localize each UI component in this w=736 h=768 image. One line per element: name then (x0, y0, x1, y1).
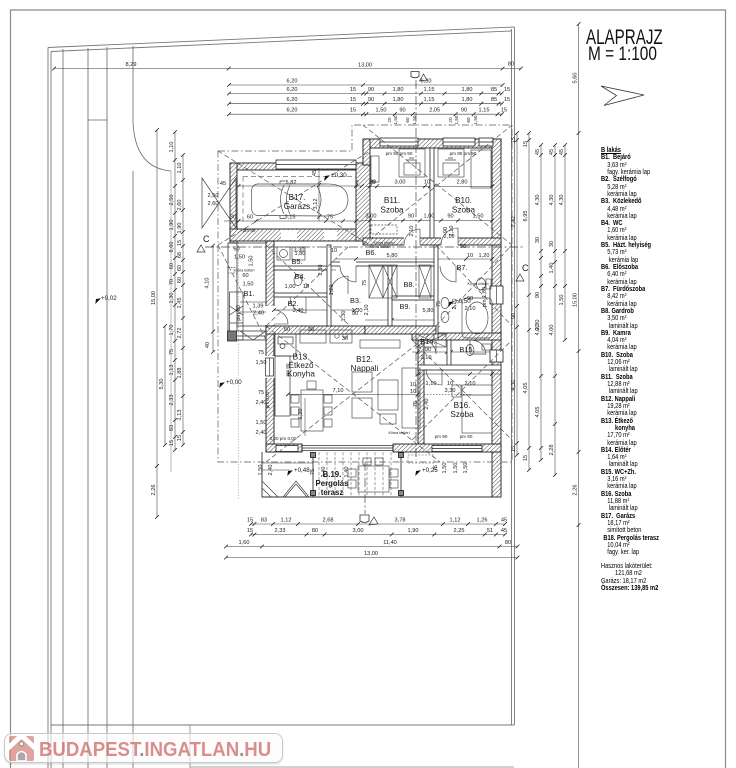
svg-text:pm 90: pm 90 (285, 363, 290, 376)
marker D top (411, 72, 419, 78)
svg-text:1,26: 1,26 (477, 518, 488, 524)
svg-text:2,10: 2,10 (465, 381, 476, 387)
svg-text:3,40: 3,40 (293, 308, 304, 314)
title block: ALAPRAJZ M = 1:100 (586, 27, 663, 49)
door gap corridor-B3 (340, 261, 356, 267)
wall garage right / B11 left (356, 163, 370, 241)
room B10 (452, 196, 476, 215)
door gap B6-B10 (441, 237, 458, 246)
garage dim row 3,15 (224, 220, 362, 222)
svg-text:5,80: 5,80 (423, 308, 434, 314)
svg-text:1,30: 1,30 (169, 293, 175, 304)
svg-text:6,20: 6,20 (287, 87, 298, 93)
corridor dim row 5,80 (336, 258, 492, 260)
totals block (601, 562, 658, 591)
svg-text:B15.: B15. (459, 345, 474, 354)
roof diagonal top block X (363, 125, 512, 245)
partition B7 left (434, 245, 438, 340)
svg-text:15: 15 (169, 440, 175, 446)
svg-text:15: 15 (501, 108, 507, 114)
neighbour plot rectangle bottom (190, 725, 514, 768)
svg-text:pm 90 pm 90: pm 90 pm 90 (386, 151, 413, 156)
svg-text:1,13: 1,13 (169, 365, 175, 376)
svg-text:60: 60 (466, 117, 471, 123)
svg-text:C: C (522, 263, 529, 273)
svg-text:85: 85 (491, 97, 497, 103)
door gap B16 (426, 366, 442, 369)
svg-text:2,30: 2,30 (318, 265, 324, 276)
svg-text:45: 45 (220, 181, 226, 187)
svg-text:75: 75 (310, 469, 316, 475)
right chain R1 6,95 (527, 131, 531, 472)
svg-text:Klíma kültéri: Klíma kültéri (234, 269, 255, 273)
svg-text:B9.: B9. (399, 302, 410, 311)
svg-text:B14.: B14. (420, 337, 435, 346)
svg-text:30: 30 (230, 215, 236, 221)
svg-text:2,50: 2,50 (208, 193, 219, 199)
svg-text:10: 10 (303, 284, 309, 290)
bottom dim labels row2 (247, 528, 507, 534)
entry door arc B2 left (274, 310, 288, 324)
level mark +0,30 (322, 172, 347, 181)
svg-text:pm 90 pm 90: pm 90 pm 90 (450, 151, 477, 156)
svg-text:83: 83 (169, 425, 175, 431)
svg-text:1,40: 1,40 (344, 467, 350, 478)
svg-text:2,40: 2,40 (256, 430, 267, 436)
svg-text:Pergolás: Pergolás (316, 479, 350, 488)
toilet B15 (466, 344, 491, 356)
svg-text:30: 30 (308, 327, 314, 333)
svg-text:pm 90: pm 90 (460, 434, 473, 439)
svg-text:2,40: 2,40 (268, 465, 274, 476)
svg-text:90: 90 (408, 214, 414, 220)
partition B11/B10 (430, 148, 434, 238)
garage dim row 5,82 (239, 185, 363, 187)
svg-text:B16.: B16. (454, 401, 471, 410)
hall dim row 3,40 (274, 309, 355, 311)
svg-text:75: 75 (362, 280, 368, 286)
svg-text:1,80: 1,80 (393, 87, 404, 93)
tv cabinet B12 (360, 340, 400, 348)
svg-text:1,90: 1,90 (177, 223, 183, 234)
door gap B2 top (290, 294, 306, 297)
porch edge dotted line (238, 240, 240, 500)
door arc B2 (290, 297, 306, 313)
svg-text:pm 90: pm 90 (435, 434, 448, 439)
svg-text:1,80: 1,80 (393, 97, 404, 103)
svg-text:B1.: B1. (243, 289, 254, 298)
room B19 terrace (316, 470, 350, 497)
svg-text:75: 75 (436, 301, 442, 307)
svg-text:10: 10 (410, 382, 416, 388)
svg-text:4,05: 4,05 (523, 383, 529, 394)
svg-text:2,26: 2,26 (573, 485, 579, 496)
svg-text:45: 45 (312, 170, 318, 176)
svg-text:70: 70 (169, 279, 175, 285)
room B13 (287, 353, 315, 379)
entry door gap (265, 306, 275, 325)
svg-text:Étkező: Étkező (288, 360, 313, 370)
terrace steps left (262, 463, 313, 497)
svg-text:6,95: 6,95 (523, 211, 529, 222)
level mark +0,02 (93, 295, 117, 304)
svg-text:2,68: 2,68 (323, 518, 334, 524)
svg-text:2,33: 2,33 (275, 528, 286, 534)
svg-text:1,50: 1,50 (473, 214, 484, 220)
svg-text:60: 60 (233, 247, 239, 253)
nappali dim row 7,10 (288, 393, 418, 395)
svg-text:11,40: 11,40 (383, 540, 397, 546)
svg-text:1,80: 1,80 (462, 97, 473, 103)
svg-text:1,20: 1,20 (479, 253, 490, 259)
svg-text:1,10: 1,10 (426, 381, 437, 387)
svg-text:B7.: B7. (456, 263, 467, 272)
svg-text:Konyha: Konyha (287, 370, 315, 379)
right chain R5 5,60 full height (577, 22, 581, 768)
svg-text:2,40: 2,40 (253, 311, 264, 317)
wall garage left (230, 163, 237, 243)
svg-text:3,00: 3,00 (395, 180, 406, 186)
svg-text:1,15: 1,15 (424, 87, 435, 93)
B16 bottom window (432, 446, 482, 452)
rooms B11/B10 dim row2 (362, 220, 492, 222)
svg-text:1,10: 1,10 (169, 142, 175, 153)
sofa group B12 (352, 368, 420, 428)
svg-text:4,10: 4,10 (205, 278, 211, 289)
svg-text:1,39: 1,39 (253, 304, 264, 310)
svg-text:20: 20 (387, 117, 392, 123)
north arrow (601, 86, 644, 106)
svg-text:15: 15 (247, 528, 253, 534)
svg-text:6,20: 6,20 (287, 108, 298, 114)
svg-text:15: 15 (177, 240, 183, 246)
bottom dim row 2 (249, 533, 507, 537)
kitchen dim col 6,20 (304, 398, 306, 436)
svg-text:2,50: 2,50 (169, 195, 175, 206)
ROOF (202, 80, 523, 514)
dim row 4 (227, 112, 504, 116)
wardrobe B11 left (371, 156, 379, 182)
svg-text:75: 75 (258, 390, 264, 396)
svg-text:7,40: 7,40 (511, 217, 517, 228)
left chain C 4,10/40 (211, 244, 215, 354)
svg-text:pm 90: pm 90 (236, 305, 242, 321)
svg-text:3,12: 3,12 (313, 199, 319, 210)
dining table B13 (291, 381, 332, 431)
svg-text:5,82: 5,82 (286, 180, 297, 186)
svg-text:15,00: 15,00 (573, 293, 579, 307)
svg-text:60: 60 (177, 277, 183, 283)
svg-text:pm 1,80: pm 1,80 (482, 287, 488, 307)
svg-text:1,60: 1,60 (239, 540, 250, 546)
partition B9 bottom (365, 326, 436, 334)
svg-text:+0,00: +0,00 (226, 379, 242, 386)
small rotated window dims (387, 115, 478, 124)
svg-text:60: 60 (169, 263, 175, 269)
svg-text:51: 51 (487, 528, 493, 534)
svg-text:3,15: 3,15 (285, 215, 296, 221)
left chain 15,00 / 2,26 (155, 128, 159, 519)
svg-text:60: 60 (247, 215, 253, 221)
svg-text:4,30: 4,30 (559, 195, 565, 206)
svg-text:15,00: 15,00 (151, 291, 157, 305)
roof diagonal living X (266, 326, 440, 462)
svg-text:60: 60 (405, 117, 410, 123)
svg-text:45: 45 (535, 149, 541, 155)
partition B3/B9 (388, 266, 392, 326)
svg-text:6,20: 6,20 (287, 79, 298, 85)
svg-text:45: 45 (549, 149, 555, 155)
entry dim rows (240, 301, 266, 303)
svg-text:2,10: 2,10 (452, 299, 458, 310)
svg-text:B4.: B4. (294, 272, 305, 281)
property boundary left double line (48, 48, 51, 768)
door arc B14 (422, 340, 436, 354)
right chain R2 (539, 143, 543, 462)
svg-text:80: 80 (505, 540, 511, 546)
window B11 top (380, 138, 418, 146)
svg-text:6,30: 6,30 (421, 79, 432, 85)
marker D bottom (360, 515, 369, 523)
garage window top (276, 160, 356, 169)
svg-text:6,20: 6,20 (287, 97, 298, 103)
porch B1 outline (228, 243, 266, 340)
svg-text:20: 20 (448, 117, 453, 123)
svg-text:15: 15 (511, 137, 517, 143)
svg-text:1,50: 1,50 (243, 282, 254, 288)
level mark +0,25 (413, 467, 438, 476)
svg-text:45: 45 (501, 518, 507, 524)
svg-text:1,88: 1,88 (177, 368, 183, 379)
WALLS (230, 139, 501, 497)
svg-text:2,80: 2,80 (457, 180, 468, 186)
svg-text:1,90: 1,90 (408, 528, 419, 534)
svg-text:75: 75 (169, 349, 175, 355)
svg-text:1,30: 1,30 (352, 308, 363, 314)
roof diagonal mid valley (266, 245, 512, 326)
roof overhang dash-dot outline (218, 125, 512, 462)
garage door opening (281, 230, 297, 240)
svg-text:3,00: 3,00 (353, 528, 364, 534)
svg-text:75: 75 (413, 401, 419, 407)
svg-text:3,00: 3,00 (366, 214, 377, 220)
svg-text:30: 30 (370, 180, 376, 186)
svg-text:2,26: 2,26 (151, 485, 157, 496)
svg-text:10: 10 (331, 248, 337, 254)
wall B12/B16 divider (418, 340, 424, 444)
svg-text:B17.: B17. (289, 193, 306, 202)
svg-text:45: 45 (501, 528, 507, 534)
gable bowtie left (202, 178, 236, 228)
svg-text:90: 90 (535, 292, 541, 298)
wall house left (266, 241, 274, 452)
toilet B7 (477, 278, 492, 290)
svg-text:90: 90 (425, 347, 431, 353)
room B11 (380, 196, 404, 215)
svg-text:1,20: 1,20 (329, 285, 335, 296)
svg-text:1,50: 1,50 (453, 463, 459, 474)
left chain 5,30 (163, 324, 167, 447)
svg-text:B6.: B6. (365, 248, 376, 257)
porch closet (230, 292, 244, 340)
dim row 3 (227, 102, 504, 106)
svg-text:30: 30 (549, 241, 555, 247)
property boundary right double line (512, 27, 515, 725)
wardrobe B10 (471, 150, 491, 188)
svg-text:13,00: 13,00 (358, 63, 372, 69)
svg-text:8,60: 8,60 (169, 242, 175, 253)
wall house top-left jog (363, 139, 370, 165)
bottom dim row 3 1,60/11,40/80 (224, 545, 519, 549)
wardrobe X B9 (419, 265, 431, 298)
partition corridor bottom (331, 262, 436, 266)
klima boxes (228, 268, 237, 274)
dim row 6,20 6,30 (227, 83, 504, 87)
svg-text:2,10: 2,10 (409, 226, 415, 237)
wardrobe X B14 (416, 334, 446, 347)
svg-text:1,50: 1,50 (463, 463, 469, 474)
svg-text:Klíma beltéri: Klíma beltéri (369, 245, 390, 249)
bed B16 (452, 385, 492, 433)
svg-text:2,25: 2,25 (454, 528, 465, 534)
driveway line to plan (170, 171, 172, 472)
wall kitchen top (266, 326, 365, 334)
dim row 2 (227, 92, 504, 96)
svg-text:15: 15 (504, 97, 510, 103)
kitchen hob (300, 330, 352, 343)
svg-text:80: 80 (508, 62, 514, 68)
right chain R4 (563, 143, 567, 342)
svg-text:0,00 pm 0,00: 0,00 pm 0,00 (270, 436, 297, 441)
svg-text:90: 90 (460, 244, 466, 250)
window B15 right wall (490, 350, 503, 362)
svg-text:1,50: 1,50 (454, 115, 459, 124)
svg-text:2,05: 2,05 (429, 108, 440, 114)
interior dimension lines (224, 168, 501, 436)
terrace table (348, 458, 398, 492)
level mark +0,00 (217, 379, 242, 388)
door arc B11 (404, 229, 420, 245)
entry porch diagonals (218, 245, 266, 340)
svg-text:40: 40 (205, 342, 211, 348)
svg-text:6,20: 6,20 (298, 409, 304, 420)
terrace outline (262, 452, 501, 497)
room B16 (450, 401, 474, 419)
left wall window gap (265, 356, 275, 378)
svg-text:75: 75 (258, 350, 264, 356)
garage dim col 3,12 (318, 168, 320, 221)
svg-text:90: 90 (511, 313, 517, 319)
garage door dashed (243, 177, 356, 225)
svg-text:+0,30: +0,30 (331, 172, 347, 179)
svg-text:90: 90 (368, 87, 374, 93)
pm 90 labels (243, 151, 477, 441)
svg-text:4,05: 4,05 (535, 407, 541, 418)
shower B15 (470, 340, 486, 354)
road verticals left (63, 46, 133, 768)
svg-text:1,00: 1,00 (285, 284, 296, 290)
svg-text:2,40: 2,40 (424, 399, 430, 410)
svg-text:2,10: 2,10 (421, 355, 432, 361)
door arc B3-B13 (330, 276, 348, 294)
door arc B10 (441, 228, 458, 245)
svg-text:1,50: 1,50 (256, 420, 267, 426)
bottom dim labels row1 (247, 518, 507, 524)
DIMS (52, 22, 580, 768)
svg-text:terasz: terasz (321, 488, 344, 497)
wall house bottom left segment (266, 444, 302, 452)
section line C-C (205, 246, 523, 248)
svg-text:15: 15 (350, 108, 356, 114)
driveway arc (133, 122, 171, 171)
svg-text:Garázs: Garázs (284, 202, 310, 211)
right chain labels (511, 73, 579, 496)
right chain R3 (553, 143, 557, 477)
svg-text:5,30: 5,30 (159, 379, 165, 390)
bottom dim labels rows 3-4 (239, 540, 512, 557)
svg-text:5,60: 5,60 (573, 73, 579, 84)
B13 bottom window (276, 446, 298, 452)
svg-text:5,80: 5,80 (387, 253, 398, 259)
svg-text:10: 10 (447, 381, 453, 387)
svg-text:15: 15 (511, 446, 517, 452)
porch pillar (228, 331, 237, 341)
klima outdoor unit terrace (408, 455, 434, 463)
svg-text:7,10: 7,10 (333, 388, 344, 394)
svg-text:3,78: 3,78 (395, 518, 406, 524)
svg-text:66: 66 (177, 252, 183, 258)
svg-text:45: 45 (559, 149, 565, 155)
svg-text:30: 30 (535, 237, 541, 243)
patio window band bottom (302, 446, 393, 451)
svg-text:90: 90 (368, 97, 374, 103)
B16 dim row 3,30/2,10 (418, 373, 501, 375)
svg-text:75: 75 (433, 465, 439, 471)
svg-text:+0,48: +0,48 (294, 467, 310, 474)
dim line top 8,29 / 13,00 / 80 (52, 67, 523, 71)
svg-text:B10.: B10. (455, 196, 472, 205)
svg-text:2,72: 2,72 (177, 328, 183, 339)
svg-text:1,50: 1,50 (256, 360, 267, 366)
property boundary bottom line (51, 724, 514, 726)
roof diagonal garage X (218, 151, 370, 245)
bottom dim row 4 13,00 (224, 556, 519, 560)
partition B5/B4 (274, 266, 330, 270)
svg-text:15: 15 (350, 87, 356, 93)
svg-text:1,45: 1,45 (177, 298, 183, 309)
svg-text:90: 90 (447, 214, 453, 220)
gate rectangle top-left (88, 119, 107, 121)
wall under B11/B10 (363, 238, 501, 245)
svg-text:4,30: 4,30 (535, 195, 541, 206)
svg-text:1,80: 1,80 (295, 251, 306, 257)
svg-text:1,12: 1,12 (450, 518, 461, 524)
left chain B (181, 153, 185, 447)
svg-text:2,60: 2,60 (177, 200, 183, 211)
svg-text:15: 15 (177, 435, 183, 441)
svg-text:2,33: 2,33 (169, 395, 175, 406)
rooms B11/B10 dim row (366, 185, 492, 187)
svg-text:2,60: 2,60 (208, 201, 219, 207)
house logo icon (9, 735, 34, 761)
svg-text:1,15: 1,15 (479, 108, 490, 114)
svg-text:Szoba: Szoba (380, 206, 404, 215)
partition B5-B2 right (327, 245, 331, 326)
door arc B3 (340, 266, 356, 282)
wall house bottom right segment (393, 444, 501, 452)
svg-text:15: 15 (350, 97, 356, 103)
svg-text:Szoba: Szoba (450, 410, 474, 419)
